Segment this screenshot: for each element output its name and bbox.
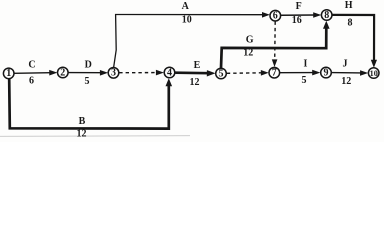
dummy wire 3->4 dashed [119,70,164,76]
svg-text:12: 12 [190,77,200,88]
svg-text:10: 10 [370,69,378,78]
node 6 [270,10,281,21]
svg-text:7: 7 [272,68,277,79]
svg-text:I: I [304,58,308,69]
svg-text:D: D [85,59,92,70]
svg-text:5: 5 [302,75,307,86]
svg-text:5: 5 [219,68,224,79]
svg-text:2: 2 [60,67,65,78]
node 4 [164,67,175,78]
svg-text:16: 16 [292,15,302,26]
svg-text:1: 1 [6,68,11,79]
svg-text:8: 8 [348,18,353,29]
wire G 5->8 up across up thick [221,21,330,68]
svg-text:A: A [182,1,190,12]
svg-text:12: 12 [77,129,87,140]
wire D 2->3 [68,70,108,76]
svg-text:9: 9 [324,67,329,78]
wire C 1->2 [14,70,57,76]
svg-text:E: E [194,60,201,71]
node 3 [108,68,119,79]
node 2 [58,67,69,78]
wire H 8->10 across and down thick [332,15,377,68]
svg-text:5: 5 [85,76,90,87]
svg-text:J: J [343,58,348,69]
node 7 [269,67,280,78]
svg-text:6: 6 [273,11,278,22]
wire A 3->6 up and across [114,12,270,68]
svg-text:3: 3 [111,68,116,79]
wire I 7->9 [280,70,321,76]
svg-text:H: H [345,0,353,11]
wire E 4->5 thick [175,70,215,76]
wire B 1->4 down across up thick [9,78,172,128]
svg-text:6: 6 [29,75,34,86]
dummy wire 5->7 dashed [227,70,269,76]
node 9 [321,67,332,78]
svg-text:12: 12 [341,76,351,87]
svg-text:10: 10 [182,15,192,26]
scan artifact faint line [0,135,190,138]
svg-text:B: B [79,116,86,127]
node 1 [3,68,14,79]
wire J 9->10 [332,70,369,76]
node 10 [368,68,379,79]
node 8 [321,10,332,21]
svg-text:G: G [246,35,254,46]
svg-text:12: 12 [243,48,253,59]
svg-text:F: F [296,1,302,12]
wire F 6->8 [281,12,321,18]
svg-text:4: 4 [167,67,172,78]
svg-text:C: C [28,59,35,70]
svg-text:8: 8 [324,10,329,21]
node 5 [216,68,227,79]
dummy wire 6->7 vertical dashed [272,22,278,68]
